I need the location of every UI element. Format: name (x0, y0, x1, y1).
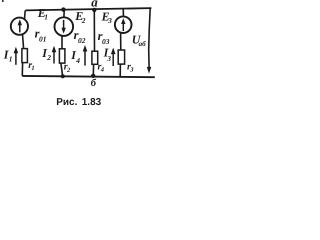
label r4 (98, 61, 105, 73)
svg-text:1: 1 (31, 65, 34, 72)
wire right branch for Uab (149, 8, 151, 67)
svg-text:1: 1 (44, 12, 48, 21)
wire r2 to bottom bus (61, 63, 63, 76)
resistor r3 (118, 50, 124, 64)
wire top bus (25, 8, 151, 10)
label r03 (98, 29, 110, 46)
current arrow I2 (52, 46, 57, 64)
svg-text:01: 01 (39, 35, 47, 44)
label I1 (3, 48, 13, 64)
EMF source E1 circle (11, 18, 28, 35)
resistor r1 (22, 49, 28, 63)
wire stub to E2 source (63, 10, 65, 18)
wire r3 to bottom bus (119, 64, 121, 76)
node a dot (92, 8, 96, 12)
wire E2 to r2 (61, 36, 63, 49)
label I3 (103, 45, 112, 63)
resistor r2 (59, 49, 65, 63)
wire r1 to bottom bus (21, 63, 23, 76)
E1 arrow up inside source (18, 19, 22, 32)
wire bottom bus (22, 76, 155, 77)
svg-text:3: 3 (107, 16, 112, 25)
speck top left (2, 0, 4, 2)
label Uab (132, 33, 146, 48)
wire r4 to node b (92, 64, 94, 75)
wire E1 to r1 (23, 34, 24, 48)
label E1 (37, 6, 48, 21)
svg-text:б: б (91, 78, 97, 89)
svg-text:a: a (91, 0, 98, 10)
label r01 (35, 27, 47, 44)
Uab arrow head down (147, 67, 152, 74)
current arrow I3 (111, 48, 116, 66)
wire stub to E1 source (24, 10, 27, 19)
label r1 (28, 60, 34, 72)
label r2 (64, 62, 71, 74)
svg-text:аб: аб (139, 40, 147, 48)
wire node a to r4 (93, 10, 95, 51)
current arrow I1 (14, 47, 19, 65)
label r02 (74, 28, 86, 45)
label E2 (74, 9, 86, 25)
label E3 (101, 10, 113, 25)
EMF source E3 circle (115, 16, 132, 33)
EMF source E2 circle (55, 17, 74, 36)
node b dot (91, 74, 95, 78)
resistor r4 (92, 51, 98, 64)
svg-text:3: 3 (129, 67, 134, 74)
svg-text:1: 1 (9, 54, 13, 63)
label I2 (41, 46, 51, 62)
svg-text:02: 02 (78, 36, 86, 45)
svg-text:3: 3 (106, 54, 111, 63)
svg-text:Рис. 1.83: Рис. 1.83 (56, 97, 101, 108)
wire stub to E3 source (122, 9, 124, 17)
svg-text:2: 2 (46, 53, 51, 62)
E3 arrow up inside source (121, 18, 125, 31)
label r3 (127, 61, 134, 73)
label I4 (70, 48, 80, 65)
svg-text:4: 4 (100, 67, 105, 74)
node dot branch2 bottom (61, 74, 65, 78)
svg-text:4: 4 (75, 56, 80, 65)
svg-text:2: 2 (81, 16, 86, 25)
node dot branch2 top (61, 7, 65, 11)
wire E3 to r3 (120, 33, 122, 51)
E2 arrow down inside source (61, 20, 65, 34)
current arrow I4 (83, 45, 88, 66)
